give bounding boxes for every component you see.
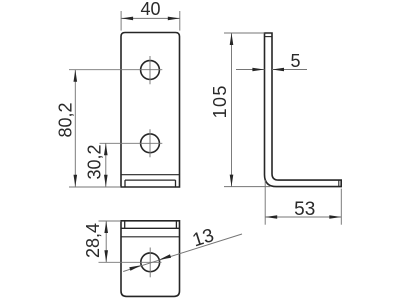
hole H1 circle [141,61,160,80]
dim 28,4 top extension line [99,220,122,222]
dim 53 line [265,216,341,218]
bottom view right tick [175,221,177,229]
dim 5 right line [272,69,307,71]
dim 5 left arrow [252,68,264,72]
hole H3 horizontal centerline [99,261,162,263]
side view top corner edge line [265,36,273,38]
front view bend line [121,174,180,176]
hole H2 horizontal centerline [100,142,163,144]
dim 105 arrow bottom [230,175,234,187]
dim 30,2 line [105,143,107,187]
svg-text:28,4: 28,4 [83,223,103,258]
side view foot tip edge line [338,180,340,187]
dim 40 arrow left [121,17,133,21]
svg-text:5: 5 [290,51,300,71]
bottom view outline [121,221,180,297]
bottom datum extension line [69,186,121,188]
hole H3 circle [141,253,160,272]
dim 40 arrow right [168,17,180,21]
dim 5 right arrow [272,68,284,72]
dim 30,2 arrow top [104,143,108,155]
svg-text:80,2: 80,2 [56,102,76,137]
dim 40 extension line right [179,11,181,31]
hole H1 vertical centerline [149,56,151,84]
dia 13 leader line [123,234,242,272]
bottom view leg inner face line [121,227,180,229]
dim 80,2 line [74,70,76,187]
dim 105 top extension line [224,32,265,34]
dim 40 line [121,17,180,19]
svg-text:13: 13 [190,225,216,251]
front view foot front edge [125,179,176,181]
hole H2 circle [141,134,160,153]
bottom view bend tangent line [121,236,180,238]
hole H3 vertical centerline [149,248,151,278]
svg-text:30,2: 30,2 [85,144,105,179]
dim 28,4 arrow bottom [104,250,108,262]
dim 28,4 line [105,221,107,262]
dia 13 arrow lower-left [129,265,141,270]
dim 105 line [231,33,233,187]
front view foot left tick [124,180,126,187]
front view outline [121,33,180,188]
dim 53 arrow left [265,215,277,219]
front view foot right tick [175,180,177,187]
dim 30,2 arrow bottom [104,175,108,187]
dim 53 arrow right [329,215,341,219]
svg-text:105: 105 [210,84,230,118]
dim 105 arrow top [230,33,234,45]
dim 40 extension line left [120,11,122,31]
bottom view left tick [124,221,126,229]
dim 80,2 arrow bottom [74,175,78,187]
svg-text:40: 40 [140,0,160,19]
dim 80,2 arrow top [74,70,78,82]
dim 53 left extension line [264,180,266,225]
hole H1 horizontal centerline [69,69,162,71]
svg-text:53: 53 [294,199,315,220]
dia 13 arrow upper-right [159,254,171,259]
hole H2 vertical centerline [149,129,151,157]
side view L profile [265,33,342,187]
dim 5 left line [236,69,264,71]
dim 53 right extension line [340,189,342,225]
dim 28,4 arrow top [104,221,108,233]
dim 105 bottom extension line [224,186,270,188]
